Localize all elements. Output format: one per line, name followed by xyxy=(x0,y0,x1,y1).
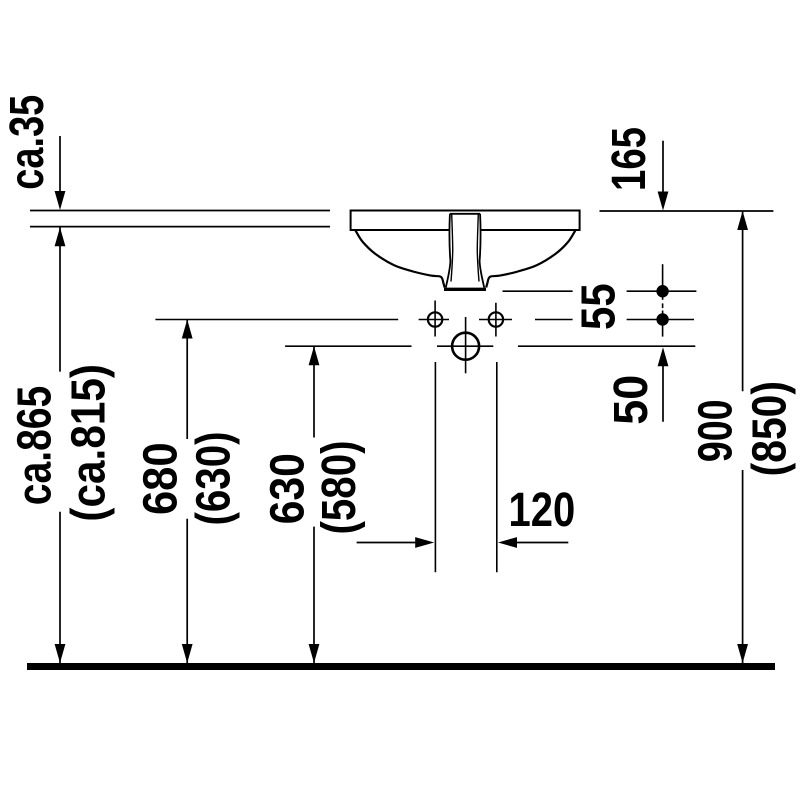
dim 120 arrow left xyxy=(498,537,517,548)
drain column right inner edge xyxy=(477,214,479,281)
lower 55 reference line mid segment xyxy=(535,319,573,321)
svg-text:(630): (630) xyxy=(188,432,241,526)
dim 630 line upper segment xyxy=(313,346,315,437)
crosshair big hole vertical xyxy=(465,317,467,373)
drain column white fill xyxy=(446,213,485,288)
faucet hole right circle xyxy=(489,312,503,326)
sink bowl left outline xyxy=(356,231,445,288)
svg-text:(ca.815): (ca.815) xyxy=(63,364,116,522)
dim 680 line upper segment xyxy=(186,320,188,440)
sink rim xyxy=(351,211,580,231)
dim 120 arrow right xyxy=(415,537,434,548)
dim ca.865 arrow up xyxy=(55,227,66,246)
dim ca.865 arrow down at floor xyxy=(55,644,66,663)
dots center line dash xyxy=(662,303,664,308)
drain column right outer edge xyxy=(480,214,485,288)
svg-text:165: 165 xyxy=(603,127,656,191)
crosshair left hole vertical xyxy=(434,301,436,337)
mounting dot lower xyxy=(656,313,668,325)
drain column left outer edge xyxy=(446,214,451,288)
dim 680 arrow down at floor xyxy=(182,644,193,663)
svg-text:50: 50 xyxy=(605,375,658,425)
dim 120 left stem xyxy=(357,542,417,544)
dim 900 line upper segment xyxy=(742,211,744,391)
dim 900 line lower segment xyxy=(742,470,744,663)
dots center line segment 2 xyxy=(662,311,664,337)
dim 120 right stem xyxy=(516,542,568,544)
svg-text:ca.35: ca.35 xyxy=(1,95,54,190)
svg-text:120: 120 xyxy=(509,484,576,537)
lower 55 reference line long left segment xyxy=(155,319,398,321)
crosshair big hole horizontal xyxy=(437,345,493,347)
countertop bottom line left xyxy=(30,226,330,228)
mounting dot upper xyxy=(656,285,668,297)
svg-text:630: 630 xyxy=(261,453,314,524)
dim 50 line xyxy=(662,363,664,422)
dim 120 extension line left xyxy=(434,362,436,572)
50 reference line left segment xyxy=(285,345,411,347)
dim 900 arrow up xyxy=(737,211,748,230)
spout hole big circle xyxy=(452,333,479,360)
dim ca.865 line lower segment xyxy=(59,512,61,663)
drain column top edge xyxy=(450,213,480,215)
svg-text:(580): (580) xyxy=(313,440,366,534)
dim ca.35 arrow down xyxy=(55,191,66,210)
dim 50 arrow up xyxy=(658,347,669,366)
countertop top line left xyxy=(30,210,330,212)
countertop line right xyxy=(600,210,774,212)
dim 680 line lower segment xyxy=(186,519,188,663)
svg-text:680: 680 xyxy=(135,442,188,515)
dim 165 arrow down xyxy=(658,192,669,211)
floor line xyxy=(27,663,775,670)
crosshair right hole vertical xyxy=(495,303,497,337)
crosshair right hole horizontal xyxy=(479,319,512,321)
svg-text:55: 55 xyxy=(573,283,626,330)
svg-text:(850): (850) xyxy=(744,381,797,476)
svg-text:900: 900 xyxy=(690,399,743,462)
dots center line segment 1 xyxy=(662,264,664,300)
upper 55 reference line left segment xyxy=(503,290,573,292)
svg-text:ca.865: ca.865 xyxy=(9,386,62,506)
dim 630 line lower segment xyxy=(313,527,315,663)
drain column left inner edge xyxy=(451,214,453,281)
50 reference line right segment xyxy=(518,345,695,347)
dim 165 line xyxy=(662,141,664,194)
dim 120 extension line right xyxy=(496,362,498,572)
upper 55 reference line right segment xyxy=(627,290,697,292)
crosshair left hole horizontal xyxy=(419,319,449,321)
dim ca.865 line upper segment xyxy=(59,227,61,371)
dim 630 arrow up xyxy=(309,346,320,365)
dim 680 arrow up xyxy=(182,320,193,339)
faucet hole left circle xyxy=(428,312,442,326)
dim 630 arrow down at floor xyxy=(309,644,320,663)
sink bowl right outline xyxy=(486,231,575,288)
drain bottom plate xyxy=(444,288,486,291)
dim 900 arrow down at floor xyxy=(737,644,748,663)
dim ca.35 upper line xyxy=(59,136,61,194)
lower 55 reference line right segment xyxy=(627,319,694,321)
